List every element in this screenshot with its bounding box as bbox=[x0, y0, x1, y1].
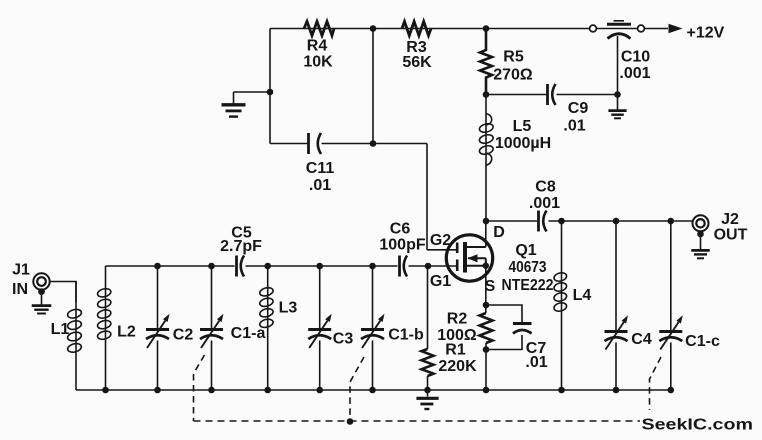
node R5 top bbox=[483, 25, 490, 32]
wire top supply rail bbox=[270, 28, 668, 30]
svg-text:.001: .001 bbox=[619, 65, 650, 82]
node C1-c top bbox=[668, 218, 675, 225]
resistor R3 bbox=[402, 22, 431, 36]
svg-text:C1-a: C1-a bbox=[231, 325, 266, 342]
svg-text:100pF: 100pF bbox=[379, 237, 425, 254]
inductor L2 bbox=[97, 266, 112, 390]
node C1-b top bbox=[369, 263, 376, 270]
node L3 top bbox=[264, 263, 271, 270]
variable capacitor C1-c bbox=[659, 221, 683, 390]
svg-text:C9: C9 bbox=[568, 100, 589, 117]
svg-text:S: S bbox=[485, 278, 496, 295]
svg-text:L2: L2 bbox=[117, 324, 136, 341]
svg-text:C1-b: C1-b bbox=[388, 327, 424, 344]
wire R1 to bus bbox=[427, 376, 429, 390]
power arrow +12V bbox=[669, 24, 683, 33]
svg-text:40673: 40673 bbox=[509, 259, 547, 276]
node C3 top bbox=[316, 263, 323, 270]
svg-text:.01: .01 bbox=[563, 118, 585, 135]
node bus L4 bbox=[558, 387, 565, 394]
node bus C1-b bbox=[369, 387, 376, 394]
op: transistor Q1 dual-gate MOSFET bbox=[427, 221, 493, 313]
svg-text:1000µH: 1000µH bbox=[495, 135, 551, 152]
node source/R2 top bbox=[483, 302, 490, 309]
node ground stub bbox=[267, 89, 274, 96]
svg-text:+12V: +12V bbox=[687, 25, 725, 42]
node G1 bbox=[425, 263, 432, 270]
svg-text:L1: L1 bbox=[51, 321, 70, 338]
node bus C1-a bbox=[208, 387, 215, 394]
svg-text:L3: L3 bbox=[279, 300, 298, 317]
capacitor C10 (feedthrough) bbox=[590, 21, 645, 95]
wire tank top row bbox=[106, 265, 457, 267]
wire drain row bbox=[486, 220, 693, 222]
svg-text:L5: L5 bbox=[513, 118, 532, 135]
svg-text:J1: J1 bbox=[12, 262, 30, 279]
svg-text:G1: G1 bbox=[430, 273, 451, 290]
node C1-a top bbox=[208, 263, 215, 270]
svg-text:.01: .01 bbox=[525, 354, 547, 371]
inductor L1 bbox=[67, 282, 83, 391]
wire J1 to L1 bbox=[50, 282, 76, 303]
node bus C2 bbox=[154, 387, 161, 394]
svg-text:270Ω: 270Ω bbox=[493, 67, 533, 84]
svg-text:.001: .001 bbox=[529, 195, 560, 212]
ground (below R1) bbox=[416, 390, 438, 409]
svg-text:R4: R4 bbox=[307, 38, 328, 55]
capacitor C8 bbox=[539, 211, 547, 232]
svg-text:SeekIC.com: SeekIC.com bbox=[642, 417, 754, 434]
node bus L3 bbox=[264, 387, 271, 394]
wire C11 row bbox=[270, 143, 427, 145]
svg-text:R5: R5 bbox=[503, 49, 524, 66]
svg-text:C3: C3 bbox=[333, 331, 354, 348]
svg-text:R1: R1 bbox=[445, 342, 466, 359]
capacitor C6 bbox=[400, 256, 408, 277]
variable capacitor C2 bbox=[146, 266, 170, 390]
wire left vertical x=270 bbox=[269, 29, 271, 144]
svg-text:L4: L4 bbox=[573, 287, 592, 304]
node C9/C10 bbox=[614, 91, 621, 98]
gang bus dashed bbox=[194, 420, 641, 422]
ground (under C10) bbox=[608, 95, 626, 119]
connector J2 bbox=[691, 215, 709, 258]
node bus R1 bbox=[424, 387, 431, 394]
node R4/R3 top bbox=[370, 25, 377, 32]
gang link dashed C1-c bbox=[650, 357, 662, 410]
node bus C3 bbox=[316, 387, 323, 394]
resistor R1 bbox=[422, 349, 434, 376]
wire ground bus bottom bbox=[76, 389, 671, 391]
variable capacitor C1-a bbox=[200, 266, 224, 390]
wire ground stub upper bbox=[234, 91, 271, 93]
svg-text:10K: 10K bbox=[303, 54, 333, 71]
wire node drop x=373 bbox=[372, 29, 374, 144]
wire source to bus bbox=[485, 343, 487, 390]
capacitor C5 bbox=[237, 256, 245, 277]
svg-text:G2: G2 bbox=[430, 232, 451, 249]
node L4 top bbox=[558, 218, 565, 225]
resistor R4 bbox=[304, 22, 334, 36]
node gang bus bbox=[347, 418, 354, 425]
node C4 top bbox=[613, 218, 620, 225]
svg-text:.01: .01 bbox=[309, 177, 331, 194]
svg-text:C4: C4 bbox=[631, 331, 652, 348]
svg-text:C2: C2 bbox=[173, 327, 194, 344]
svg-text:OUT: OUT bbox=[714, 227, 748, 244]
inductor L3 bbox=[259, 266, 274, 390]
node R2 bottom bbox=[483, 346, 490, 353]
variable capacitor C1-b bbox=[361, 266, 385, 390]
node bus C4 bbox=[613, 387, 620, 394]
connector J1 bbox=[32, 273, 52, 313]
svg-text:2.7pF: 2.7pF bbox=[220, 238, 262, 255]
svg-text:Q1: Q1 bbox=[515, 242, 536, 259]
node bus R2 bbox=[483, 387, 490, 394]
svg-text:C10: C10 bbox=[621, 49, 650, 66]
ground (upper left) bbox=[222, 92, 246, 117]
inductor L5 bbox=[479, 95, 495, 222]
svg-text:220K: 220K bbox=[438, 358, 477, 375]
gang link dashed C1-a bbox=[194, 355, 205, 421]
svg-text:NTE222: NTE222 bbox=[502, 277, 554, 294]
resistor R2 bbox=[480, 313, 493, 343]
svg-text:C8: C8 bbox=[535, 179, 556, 196]
svg-text:C11: C11 bbox=[306, 160, 335, 177]
wire G1 column to R1 bbox=[427, 266, 429, 349]
node bus L2 bbox=[102, 387, 109, 394]
node R5/C9 bbox=[483, 91, 490, 98]
node C11 row bbox=[370, 140, 377, 147]
svg-text:56K: 56K bbox=[402, 54, 432, 71]
svg-text:C6: C6 bbox=[390, 221, 411, 238]
inductor L4 bbox=[553, 221, 567, 390]
svg-text:J2: J2 bbox=[721, 211, 739, 228]
capacitor C9 bbox=[486, 84, 618, 105]
svg-text:D: D bbox=[493, 224, 505, 241]
variable capacitor C4 bbox=[605, 221, 629, 390]
wire G2 drop bbox=[426, 144, 428, 250]
variable capacitor C3 bbox=[308, 266, 332, 390]
node drain bbox=[483, 218, 490, 225]
node C2 top bbox=[154, 263, 161, 270]
svg-text:IN: IN bbox=[12, 281, 28, 298]
node bus C1-c bbox=[668, 387, 675, 394]
capacitor C7 (with loop wires) bbox=[486, 305, 532, 350]
resistor R5 bbox=[480, 29, 492, 95]
svg-text:R2: R2 bbox=[447, 311, 468, 328]
capacitor C11 bbox=[309, 133, 322, 154]
gang link dashed C1-b bbox=[350, 357, 364, 422]
svg-text:C1-c: C1-c bbox=[685, 333, 720, 350]
